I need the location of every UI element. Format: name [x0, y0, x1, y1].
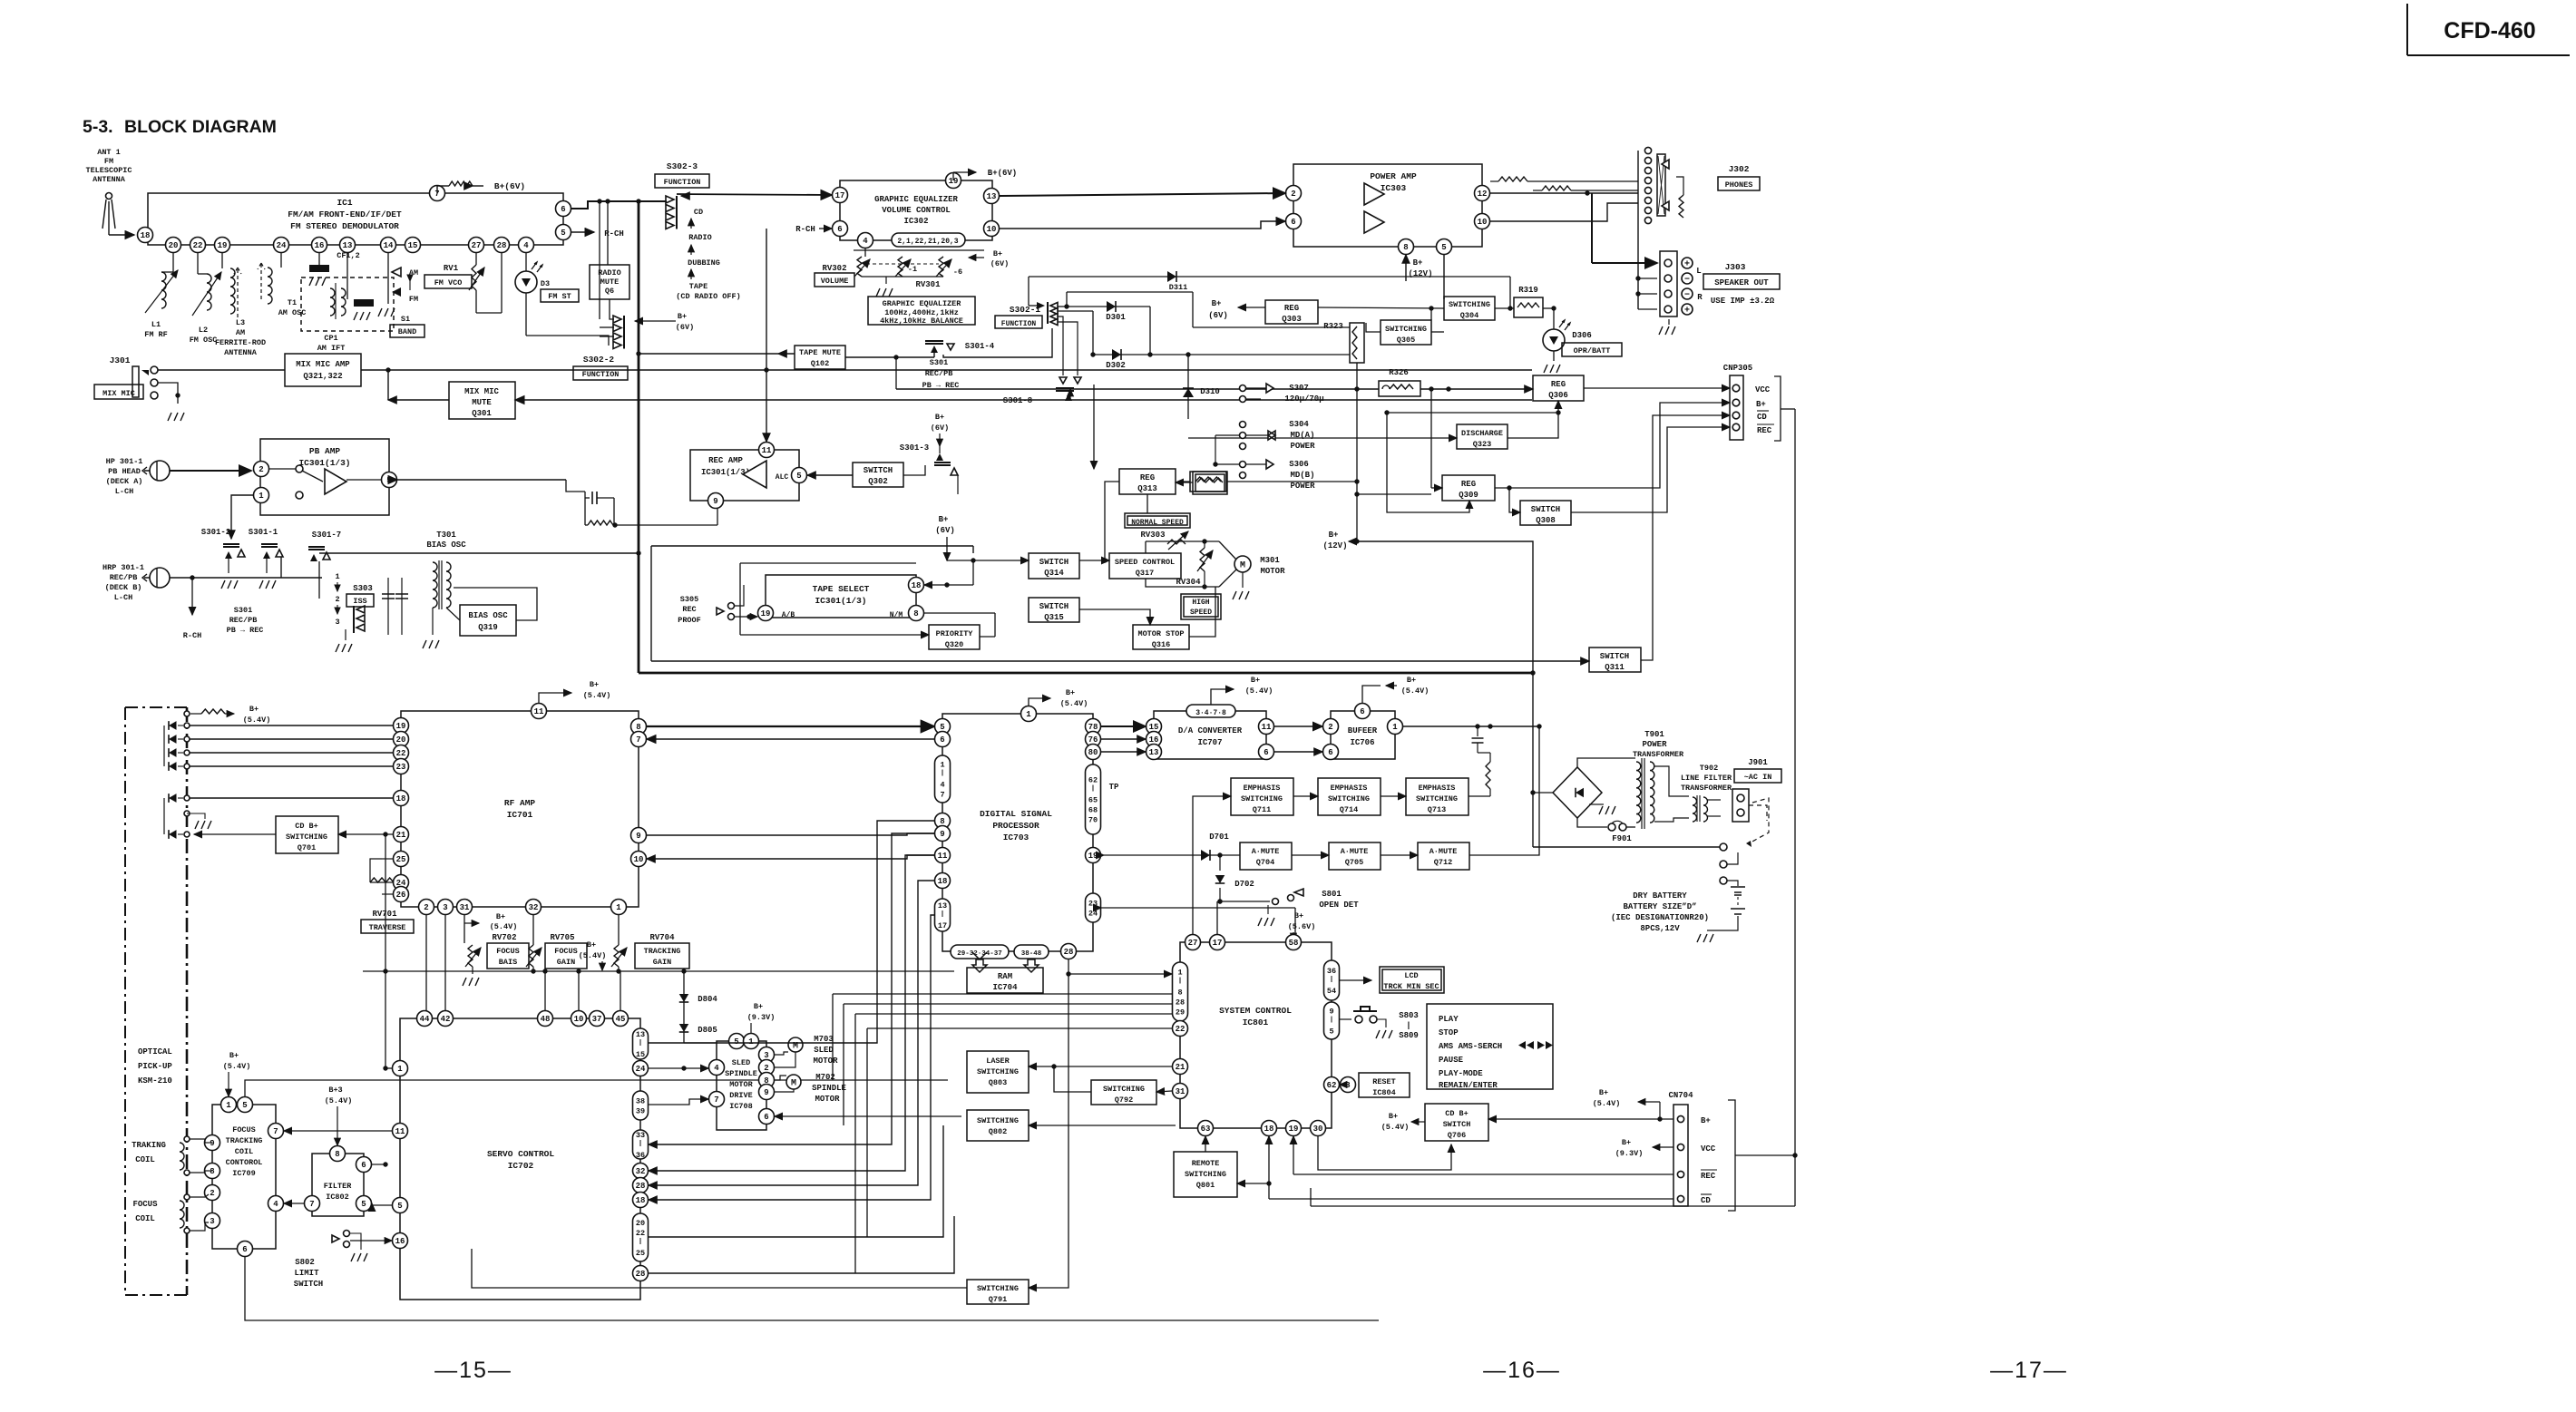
- wires pickup to RF amp: [190, 725, 393, 798]
- PLAY STOP key list box: [1427, 1004, 1553, 1090]
- NORMAL SPEED boxed label: [1125, 513, 1190, 528]
- RV1 FM VCO trimmer: [444, 253, 502, 313]
- svg-text:3: 3: [335, 618, 339, 627]
- svg-text:28: 28: [1064, 948, 1074, 957]
- RADIO MUTE Q6 block: [590, 265, 629, 299]
- svg-text:REC/PB: REC/PB: [110, 573, 138, 582]
- svg-text:23: 23: [396, 763, 406, 772]
- svg-text:REC: REC: [682, 605, 696, 614]
- PHONES boxed label: [1718, 177, 1760, 190]
- IC703 bottom pins: [951, 944, 1077, 959]
- S802 LIMIT SWITCH label: [294, 1258, 323, 1289]
- svg-text:5: 5: [561, 229, 565, 238]
- D302 diode: [1058, 311, 1350, 370]
- svg-text:RF AMP: RF AMP: [504, 798, 536, 808]
- svg-text:BUFEER: BUFEER: [1348, 726, 1378, 735]
- svg-text:SLED: SLED: [732, 1058, 750, 1067]
- svg-text:28: 28: [1176, 998, 1185, 1008]
- TAPE SELECT pin 8: [909, 606, 924, 621]
- svg-text:B+(6V): B+(6V): [494, 181, 525, 191]
- svg-text:IC301(1/3): IC301(1/3): [298, 458, 350, 468]
- wire bias osc to transformer: [454, 588, 537, 620]
- svg-text:(5.4V): (5.4V): [1401, 687, 1429, 696]
- svg-text:MIX MIC: MIX MIC: [102, 389, 135, 398]
- svg-text:SWITCH: SWITCH: [294, 1280, 323, 1289]
- IC303 pin 8: [1399, 239, 1414, 255]
- TAPE SELECT IC301(1/3) block: [766, 575, 916, 619]
- MIX MIC AMP Q321,322 block: [285, 354, 361, 386]
- PB AMP pin 2: [254, 462, 269, 477]
- svg-text:AM IFT: AM IFT: [317, 344, 346, 353]
- servo bus DSP11 to IC702 32: [649, 855, 934, 1171]
- svg-text:Q6: Q6: [605, 287, 614, 296]
- svg-text:CD B+: CD B+: [295, 822, 318, 831]
- svg-text:Q321,322: Q321,322: [303, 372, 342, 381]
- wire tape mute input right: [845, 328, 1052, 357]
- svg-text:2: 2: [1291, 190, 1295, 199]
- S305 contacts: [717, 585, 757, 620]
- IC1 pin 18: [138, 228, 153, 243]
- svg-text:25: 25: [636, 1249, 645, 1258]
- B+ 9.3V at IC708: [747, 1002, 776, 1041]
- servo bus DSP9 to IC702 33-36: [649, 833, 934, 1144]
- svg-text:IC301(1/3): IC301(1/3): [701, 468, 750, 477]
- svg-text:S302-2: S302-2: [583, 355, 615, 365]
- svg-text:B+: B+: [1251, 676, 1260, 685]
- svg-text:(6V): (6V): [1208, 311, 1228, 320]
- svg-text:(6V): (6V): [676, 323, 694, 332]
- REC AMP pin 9: [708, 493, 724, 509]
- D310 diode: [1183, 355, 1220, 419]
- radio mute feed wire: [600, 201, 608, 319]
- wires phones to speaker: [1592, 193, 1657, 309]
- B+ 6V at S301-3: [931, 413, 949, 446]
- svg-text:SWITCHING: SWITCHING: [1241, 794, 1283, 803]
- M702 SPINDLE MOTOR label: [812, 1073, 846, 1104]
- svg-text:1: 1: [1177, 969, 1182, 978]
- CD B+ SWITCHING Q701 block: [276, 816, 338, 853]
- PB AMP pin 1: [254, 488, 269, 503]
- svg-text:Q320: Q320: [945, 640, 963, 649]
- OPTICAL PICK-UP KSM-210 label: [138, 1047, 172, 1086]
- boxed resistor right of REG Q313: [1193, 472, 1227, 494]
- svg-text:54: 54: [1327, 987, 1336, 996]
- wire IC801 pin30 to Q706: [1318, 1136, 1451, 1170]
- svg-text:6: 6: [764, 1113, 768, 1122]
- svg-text:D311: D311: [1169, 283, 1187, 292]
- svg-text:VOLUME: VOLUME: [821, 277, 849, 286]
- svg-text:L2: L2: [199, 326, 208, 335]
- svg-text:FM: FM: [409, 295, 418, 304]
- IC701 left pins: [394, 718, 409, 902]
- wire long switch Q311 feed: [651, 660, 1589, 662]
- S306 switch contacts: [1240, 460, 1274, 479]
- svg-text:44: 44: [420, 1015, 430, 1024]
- svg-text:7: 7: [309, 1200, 314, 1209]
- svg-text:Q323: Q323: [1473, 440, 1491, 449]
- svg-text:TRANSFORMER: TRANSFORMER: [1633, 750, 1684, 759]
- svg-text:CD: CD: [694, 208, 703, 217]
- D3 FM ST boxed label: [541, 289, 579, 302]
- svg-text:FM STEREO DEMODULATOR: FM STEREO DEMODULATOR: [290, 221, 399, 231]
- CF1,2 ceramic filters: [309, 251, 374, 320]
- svg-text:RADIO: RADIO: [598, 268, 621, 278]
- svg-text:CD B+: CD B+: [1445, 1109, 1469, 1118]
- wire IC801 pin18 feed: [1237, 1136, 1272, 1199]
- wire into IC702 pin 1: [383, 1066, 387, 1070]
- S302-3 FUNCTION boxed label: [655, 174, 709, 188]
- svg-text:11: 11: [938, 852, 948, 861]
- svg-text:FM RF: FM RF: [144, 330, 168, 339]
- svg-text:3: 3: [443, 903, 447, 912]
- M702 spindle motor: [775, 1075, 801, 1092]
- svg-text:4kHz,10kHz BALANCE: 4kHz,10kHz BALANCE: [880, 316, 963, 326]
- svg-text:(9.3V): (9.3V): [1615, 1149, 1644, 1158]
- svg-text:B+: B+: [1212, 299, 1222, 308]
- IC302 pin 17: [833, 188, 848, 203]
- svg-text:TRACKING: TRACKING: [644, 947, 681, 956]
- svg-text:BAIS: BAIS: [499, 958, 517, 967]
- TRAKING COIL label: [132, 1141, 166, 1164]
- svg-text:T1: T1: [288, 298, 297, 307]
- wire IC303 pin12 to phones: [1490, 177, 1638, 196]
- svg-text:SWITCHING: SWITCHING: [977, 1284, 1019, 1293]
- svg-text:19: 19: [1289, 1125, 1299, 1134]
- svg-text:8: 8: [335, 1150, 339, 1159]
- RV302 ground: [876, 288, 893, 297]
- svg-text:STOP: STOP: [1439, 1028, 1459, 1037]
- SWITCH Q308 block: [1520, 501, 1571, 525]
- REMOTE SWITCHING Q801 block: [1174, 1152, 1237, 1197]
- svg-text:COIL: COIL: [135, 1214, 155, 1223]
- svg-text:28: 28: [636, 1182, 646, 1191]
- wire IC801 to LCD: [1340, 979, 1371, 981]
- svg-text:~AC IN: ~AC IN: [1744, 773, 1772, 782]
- S801 OPEN DET switch: [1217, 889, 1303, 926]
- REC AMP pin 5: [792, 468, 807, 483]
- CNP305 bracket: [1774, 376, 1781, 441]
- IC801 top pins: [1186, 935, 1302, 950]
- svg-text:SWITCHING: SWITCHING: [977, 1067, 1019, 1076]
- svg-text:FUNCTION: FUNCTION: [1001, 320, 1037, 328]
- REG Q313 block: [1119, 469, 1176, 494]
- svg-text:KSM-210: KSM-210: [138, 1076, 172, 1086]
- svg-text:SERVO CONTROL: SERVO CONTROL: [487, 1149, 554, 1159]
- svg-text:20: 20: [636, 1219, 645, 1228]
- svg-text:TAPE: TAPE: [689, 282, 707, 291]
- svg-text:PROCESSOR: PROCESSOR: [992, 821, 1039, 831]
- svg-text:Q802: Q802: [989, 1127, 1007, 1136]
- svg-text:(DECK A): (DECK A): [106, 477, 143, 486]
- svg-text:B+: B+: [678, 312, 687, 321]
- wire Q791 output left: [472, 1249, 967, 1288]
- wires DAC to BUFEER: [1274, 726, 1322, 752]
- svg-text:FUNCTION: FUNCTION: [582, 370, 620, 379]
- DIGITAL SIGNAL PROCESSOR IC703 block: [942, 714, 1093, 951]
- svg-text:IC802: IC802: [326, 1193, 349, 1202]
- A-MUTE Q704 block: [1240, 842, 1292, 870]
- wire IC302 pin13 to IC303 pin2: [1000, 193, 1285, 196]
- BUFEER output wire: [1403, 724, 1539, 728]
- svg-text:REC AMP: REC AMP: [708, 456, 743, 465]
- svg-text:(5.4V): (5.4V): [583, 691, 611, 700]
- svg-text:PLAY: PLAY: [1439, 1015, 1459, 1024]
- svg-text:22: 22: [1176, 1025, 1186, 1034]
- L2 FM OSC coil: [190, 253, 221, 345]
- svg-text:(5.4V): (5.4V): [1245, 687, 1273, 696]
- B+ 9.3V at CN704 VCC: [1615, 1138, 1673, 1158]
- svg-text:6: 6: [940, 735, 944, 745]
- svg-text:14: 14: [384, 241, 394, 250]
- svg-text:20: 20: [169, 241, 179, 250]
- svg-text:Q317: Q317: [1136, 569, 1154, 578]
- svg-text:HP 301-1: HP 301-1: [106, 457, 143, 466]
- wire Q791 feed from DSP pin28: [1029, 959, 1068, 1288]
- svg-text:Q704: Q704: [1256, 858, 1274, 867]
- svg-text:28: 28: [497, 241, 507, 250]
- svg-text:FM/AM FRONT-END/IF/DET: FM/AM FRONT-END/IF/DET: [288, 209, 402, 219]
- svg-text:6: 6: [1328, 748, 1332, 757]
- svg-text:15: 15: [636, 1050, 645, 1059]
- RV1 FM VCO boxed label: [424, 275, 472, 288]
- audio line DSP to IC701 pin7: [647, 738, 934, 740]
- svg-text:4: 4: [940, 781, 944, 790]
- svg-text:A·MUTE: A·MUTE: [1252, 847, 1280, 856]
- T902 LINE FILTER TRANSFORMER label: [1681, 764, 1732, 793]
- TRAVERSE boxed label: [361, 920, 414, 933]
- svg-text:3: 3: [764, 1051, 768, 1060]
- svg-text:Q714: Q714: [1340, 805, 1358, 814]
- svg-text:CN704: CN704: [1668, 1091, 1693, 1100]
- wires DSP to DAC: [1101, 726, 1146, 752]
- svg-text:LCD: LCD: [1404, 971, 1418, 980]
- svg-text:PRIORITY: PRIORITY: [936, 629, 974, 638]
- svg-text:M: M: [1240, 561, 1245, 571]
- GRAPHIC EQUALIZER VOLUME CONTROL IC302 block: [840, 180, 992, 240]
- svg-text:B+: B+: [1622, 1138, 1631, 1147]
- A-MUTE Q705 block: [1329, 842, 1381, 870]
- svg-text:—15—: —15—: [434, 1358, 512, 1383]
- D804 diode: [679, 971, 718, 1043]
- svg-text:GRAPHIC EQUALIZER: GRAPHIC EQUALIZER: [874, 195, 958, 204]
- svg-text:S301-4: S301-4: [965, 342, 995, 351]
- svg-text:1: 1: [335, 572, 339, 581]
- svg-text:ANTENNA: ANTENNA: [224, 348, 258, 357]
- svg-text:17: 17: [835, 191, 845, 200]
- svg-text:CNP305: CNP305: [1723, 364, 1752, 373]
- RESET pin 3: [1341, 1077, 1356, 1093]
- D/A CONVERTER IC707 block: [1154, 711, 1266, 759]
- optical pickup dashed frame: [125, 707, 187, 1295]
- svg-text:6: 6: [837, 225, 842, 234]
- svg-text:(9.3V): (9.3V): [747, 1013, 776, 1022]
- wire CNP bracket to right frame: [1781, 408, 1795, 410]
- wires switch Q314 row: [924, 558, 1150, 637]
- data line IC701 pin9 to DSP: [647, 833, 934, 835]
- svg-text:Q308: Q308: [1536, 516, 1556, 525]
- svg-text:R319: R319: [1518, 286, 1538, 295]
- svg-text:1: 1: [397, 1065, 403, 1074]
- servo error bus down from RF amp: [426, 915, 445, 1018]
- svg-text:Q306: Q306: [1548, 391, 1568, 400]
- IC708 pins: [709, 1034, 775, 1125]
- REC AMP IC301(1/3) block: [690, 450, 799, 501]
- REG Q306 block: [1533, 375, 1584, 401]
- wire PB head to PB AMP pin 2: [170, 470, 251, 472]
- svg-text:L-CH: L-CH: [115, 487, 133, 496]
- J302 phones jack contacts: [1638, 147, 1683, 227]
- SWITCHING Q305 block: [1381, 320, 1431, 345]
- pickup monitor diode: [164, 794, 211, 829]
- svg-text:63: 63: [1201, 1125, 1211, 1134]
- right frame bottom link: [1311, 1153, 1798, 1206]
- svg-text:S301-3: S301-3: [900, 443, 929, 453]
- svg-text:IC704: IC704: [992, 983, 1018, 992]
- MIX MIC boxed label: [94, 385, 143, 399]
- PRIORITY Q320 block: [929, 625, 980, 649]
- wire FILTER pin6 up: [372, 1162, 388, 1166]
- IC1 pin 7: [430, 186, 445, 201]
- svg-text:IC303: IC303: [1381, 183, 1407, 193]
- svg-text:(6V): (6V): [990, 259, 1009, 268]
- B+ 12V at IC303 pin 8: [1406, 255, 1433, 281]
- svg-text:4: 4: [863, 237, 868, 246]
- svg-text:PB AMP: PB AMP: [309, 446, 341, 456]
- svg-text:—17—: —17—: [1990, 1358, 2068, 1383]
- svg-text:33: 33: [636, 1131, 645, 1140]
- svg-text:22: 22: [193, 241, 203, 250]
- S302-2 FUNCTION boxed label: [573, 366, 628, 380]
- svg-text:MIX MIC AMP: MIX MIC AMP: [296, 360, 350, 369]
- svg-text:9: 9: [636, 832, 640, 841]
- wire bus horizontal thick: [639, 670, 1536, 675]
- svg-text:D702: D702: [1234, 880, 1254, 889]
- svg-text:4: 4: [714, 1064, 719, 1073]
- svg-text:B+: B+: [939, 515, 949, 524]
- servo bus DSP18 to IC702 28: [649, 881, 934, 1185]
- svg-text:7: 7: [940, 791, 944, 800]
- svg-text:8: 8: [1177, 988, 1182, 998]
- svg-text:S301-1: S301-1: [249, 528, 278, 537]
- wire MIX MIC AMP output: [361, 367, 1532, 372]
- tracking coil symbol: [180, 1136, 209, 1175]
- svg-text:MOTOR: MOTOR: [1260, 567, 1285, 576]
- D701 diode on mute line: [1104, 833, 1240, 861]
- VCC line through R326 to REG Q306: [893, 355, 1533, 391]
- wire feed to S302-1 top: [1029, 277, 1513, 311]
- svg-text:22: 22: [636, 1229, 645, 1238]
- svg-text:9: 9: [713, 497, 717, 506]
- svg-text:S306: S306: [1289, 460, 1309, 469]
- LCD TRCK MIN SEC block: [1380, 967, 1444, 993]
- wire Q302 to REC AMP pin 5: [807, 474, 853, 476]
- svg-text:REC/PB: REC/PB: [229, 616, 258, 625]
- SWITCHING Q802 block: [967, 1110, 1029, 1141]
- svg-text:MOTOR: MOTOR: [813, 1057, 838, 1066]
- svg-text:19: 19: [396, 722, 406, 731]
- svg-text:8PCS,12V: 8PCS,12V: [1640, 924, 1680, 933]
- REC/PB head plug symbol: [150, 568, 170, 588]
- svg-text:-6: -6: [953, 268, 962, 277]
- svg-text:SWITCH: SWITCH: [1531, 505, 1560, 514]
- RV303 trimmer: [1140, 531, 1188, 550]
- svg-text:27: 27: [1188, 939, 1198, 948]
- svg-text:COIL: COIL: [135, 1155, 155, 1164]
- svg-text:(5.4V): (5.4V): [325, 1096, 353, 1105]
- SWITCH Q315 block: [1029, 598, 1079, 622]
- S301-2 switch: [221, 544, 245, 589]
- svg-text:IC1: IC1: [337, 198, 352, 208]
- svg-text:EMPHASIS: EMPHASIS: [1331, 784, 1368, 793]
- svg-text:26: 26: [396, 891, 406, 900]
- svg-text:RV303: RV303: [1140, 531, 1165, 540]
- svg-text:5: 5: [386, 476, 391, 485]
- speaker ground: [1659, 319, 1675, 335]
- svg-text:SPINDLE: SPINDLE: [812, 1084, 846, 1093]
- svg-text:S303: S303: [353, 584, 373, 593]
- svg-text:11: 11: [534, 707, 544, 716]
- IC302 pin 4: [858, 233, 873, 248]
- svg-text:TELESCOPIC: TELESCOPIC: [85, 166, 132, 175]
- output filter resistor: [1478, 753, 1490, 796]
- svg-text:S801: S801: [1322, 890, 1342, 899]
- T901 power transformer: [1577, 758, 1689, 829]
- IC303 pin 12: [1475, 186, 1490, 201]
- svg-text:L: L: [1696, 267, 1701, 276]
- wire S302-3 common to IC302 pin 17: [677, 194, 832, 195]
- feedback RC network: [566, 480, 717, 528]
- svg-text:D/A CONVERTER: D/A CONVERTER: [1178, 726, 1243, 735]
- S301-7 switch: [308, 547, 330, 561]
- wire PB AMP pin5 line: [397, 479, 566, 481]
- wire IC702 pill38-39 to IC708 pin7: [649, 1099, 708, 1105]
- svg-text:18: 18: [396, 794, 406, 803]
- S803 key switch: [1340, 1007, 1392, 1038]
- svg-text:(12V): (12V): [1408, 269, 1432, 278]
- wire into IC708 pin6: [775, 1115, 961, 1117]
- IC303 pin 5: [1437, 239, 1452, 255]
- svg-text:3: 3: [210, 1217, 214, 1226]
- svg-text:B+: B+: [1407, 676, 1416, 685]
- B+ 12V arrow mid: [1322, 531, 1357, 550]
- CN704 connector: [1668, 1091, 1693, 1206]
- D3 FM ST LED: [515, 253, 550, 336]
- wires emphasis chain: [1293, 795, 1490, 797]
- svg-text:SYSTEM CONTROL: SYSTEM CONTROL: [1219, 1006, 1292, 1016]
- IC702 left pins: [393, 1061, 408, 1249]
- svg-text:5: 5: [361, 1200, 366, 1209]
- svg-text:IC709: IC709: [232, 1169, 256, 1178]
- svg-text:48: 48: [541, 1015, 551, 1024]
- svg-text:S301-7: S301-7: [312, 531, 341, 540]
- svg-text:(5.4V): (5.4V): [490, 922, 518, 931]
- CD B+ SWITCH Q706 block: [1425, 1104, 1488, 1141]
- S302-1 FUNCTION boxed label: [995, 316, 1042, 328]
- svg-text:1: 1: [1392, 723, 1398, 732]
- svg-text:EMPHASIS: EMPHASIS: [1244, 784, 1281, 793]
- svg-text:IC706: IC706: [1350, 738, 1374, 747]
- wire IC801 pin21 to LASER box: [1029, 1066, 1172, 1067]
- svg-text:Q313: Q313: [1137, 484, 1157, 493]
- HRP 301-1 rec head label: [102, 563, 144, 602]
- BUFEER IC706 block: [1331, 711, 1395, 759]
- svg-text:24: 24: [636, 1065, 646, 1074]
- svg-text:REMOTE: REMOTE: [1192, 1159, 1220, 1168]
- svg-text:USE IMP ±3.2Ω: USE IMP ±3.2Ω: [1711, 297, 1775, 306]
- wire tape mute output left: [636, 351, 795, 355]
- svg-text:B+: B+: [590, 680, 599, 689]
- svg-text:IC302: IC302: [903, 217, 928, 226]
